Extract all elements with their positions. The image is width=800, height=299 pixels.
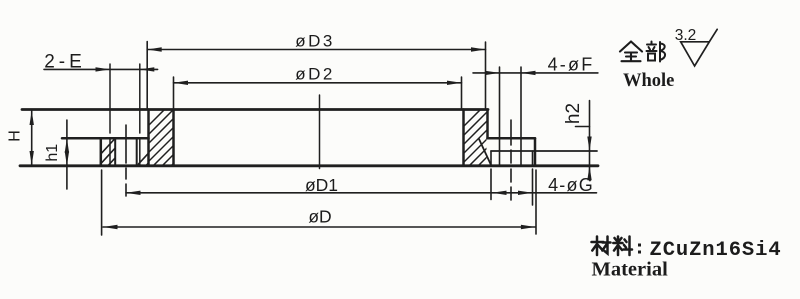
left bolt hole centerline [125, 125, 127, 196]
4-oG arrow right [518, 191, 533, 195]
oD arrow left [103, 225, 118, 229]
h2 top tick [576, 126, 590, 128]
2-E arrow left (outside) [96, 67, 111, 71]
svg-text:Whole: Whole [623, 71, 674, 91]
hub inner wall left [172, 110, 175, 166]
dimension 4-oF line [473, 72, 598, 74]
svg-text:h1: h1 [44, 144, 61, 162]
hub outer wall left [147, 110, 150, 166]
oD2 extension line right [461, 77, 463, 109]
hatching left step inner cell [133, 132, 177, 170]
counterbore oG wall left + extension below [490, 151, 492, 200]
svg-text:ZCuZn16Si4: ZCuZn16Si4 [650, 239, 782, 262]
right step top surface [488, 137, 536, 140]
oD3 arrow left [147, 47, 162, 51]
4-oG arrow left [492, 191, 507, 195]
svg-text:h2: h2 [563, 103, 584, 124]
bolt hole oF wall right + extension [520, 67, 522, 166]
svg-text:øD2: øD2 [295, 65, 335, 84]
dimension 2-E line [44, 68, 158, 70]
oD extension line left [101, 170, 103, 235]
oD2 extension line left [173, 77, 175, 109]
flange top face line [22, 108, 488, 111]
svg-text:3.2: 3.2 [675, 27, 697, 44]
chinese char bu (part) [647, 42, 666, 62]
4-oF arrow left (outside) [485, 71, 500, 75]
thread major dia thin line right + 2-E extension line [139, 64, 141, 166]
chinese char liao (material) [613, 237, 632, 256]
oD extension line right [535, 170, 537, 234]
counterbore ceiling and h2 extension line [491, 150, 597, 152]
left outer edge of flange [100, 138, 103, 166]
bolt hole oF wall left + extension [499, 67, 501, 166]
oD2 arrow left [174, 81, 189, 85]
oD1 arrow left [126, 191, 141, 195]
hatching left hub block [104, 100, 246, 170]
2-E arrow right (outside) [140, 67, 155, 71]
counterbore oG wall right + extension below [532, 151, 534, 205]
threaded hole 2-E: minor dia wall right [136, 138, 138, 166]
flange centerline [319, 95, 321, 169]
hatching right hub block [420, 100, 553, 170]
svg-text:2-E: 2-E [44, 52, 86, 73]
svg-text:øD: øD [308, 207, 331, 227]
H arrow top [30, 111, 34, 126]
dimension h1 line [66, 120, 68, 189]
dimension oD2 line [174, 82, 462, 84]
h2 arrow onto bottom surface [587, 166, 591, 181]
threaded hole 2-E: minor dia wall left [114, 138, 116, 166]
oD3 extension line right [485, 42, 487, 108]
chinese char quan (all) [620, 42, 642, 62]
thread major dia thin line left + 2-E extension line [109, 64, 111, 166]
right outer edge of flange [534, 138, 537, 166]
svg-text:øD1: øD1 [305, 175, 338, 195]
oD3 extension line left [146, 42, 148, 109]
4-oF arrow right (outside) [521, 71, 536, 75]
dimension oD3 line [147, 49, 485, 51]
oD3 arrow right [471, 47, 486, 51]
right bolt hole centerline [510, 120, 512, 200]
h2 arrow onto upper surface [587, 137, 591, 152]
dimension oD1 / 4-oG shared line [126, 192, 597, 194]
H arrow bottom [30, 151, 34, 166]
surface finish symbol triangle [681, 29, 718, 66]
dimension h2 line [589, 101, 591, 179]
svg-text:4-øF: 4-øF [548, 55, 595, 75]
fullwidth colon [638, 244, 641, 254]
h1 arrow bottom [65, 151, 69, 166]
svg-text:4-øG: 4-øG [548, 175, 594, 195]
svg-text:øD3: øD3 [295, 32, 335, 51]
oD arrow right [521, 225, 536, 229]
right hub taper line [479, 139, 491, 165]
flange bottom face line [20, 164, 598, 167]
left step top surface [62, 137, 149, 140]
dimension H line [31, 111, 33, 166]
svg-text:H: H [7, 130, 24, 142]
hatching left step outer cell [86, 132, 139, 170]
hub inner wall right [462, 110, 465, 166]
dimension oD line [103, 226, 535, 228]
h1 arrow top [65, 138, 69, 153]
oD2 arrow right [447, 81, 462, 85]
hub outer wall right [486, 110, 489, 139]
chinese char cai (timber) [592, 237, 611, 256]
